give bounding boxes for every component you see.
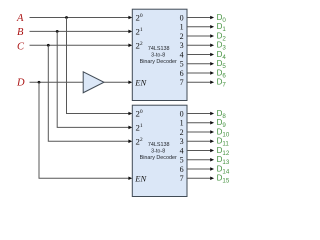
node A junction [65, 16, 68, 19]
U2 output pin numbers 0-7 [180, 109, 184, 183]
node C junction [47, 44, 50, 47]
wire U1 output 5 to D5 [187, 63, 210, 65]
wire A vertical branch [67, 18, 129, 114]
wire B horizontal [30, 30, 129, 32]
arrow D10 [210, 130, 214, 134]
decoder U1 74LS138 body [132, 9, 187, 100]
pin arrow U1 input A [128, 16, 132, 20]
svg-text:7: 7 [180, 78, 184, 87]
arrow D13 [210, 158, 214, 162]
pin arrow U2 input C [128, 140, 132, 144]
svg-text:0: 0 [180, 109, 184, 118]
arrow D5 [210, 62, 214, 66]
wire inverter output to U1 EN [104, 81, 129, 83]
pin arrow U2 EN [128, 176, 132, 180]
svg-text:EN: EN [134, 173, 147, 183]
wire U1 output 3 to D3 [187, 44, 210, 46]
arrow D3 [210, 43, 214, 47]
svg-text:3: 3 [180, 41, 184, 50]
arrow D7 [210, 80, 214, 84]
svg-text:B: B [17, 27, 24, 38]
arrow D11 [210, 139, 214, 143]
wire U1 output 1 to D1 [187, 26, 210, 28]
svg-text:1: 1 [180, 23, 184, 32]
arrow D14 [210, 167, 214, 171]
node D junction [38, 81, 41, 84]
wire U1 output 4 to D4 [187, 54, 210, 56]
svg-text:5: 5 [180, 60, 184, 69]
svg-text:3-to-8: 3-to-8 [151, 148, 165, 154]
wire A horizontal [30, 17, 129, 19]
pin arrow U1 input C [128, 44, 132, 48]
svg-text:D: D [16, 77, 25, 88]
U1 output pin numbers 0-7 [180, 13, 184, 87]
svg-text:0: 0 [180, 13, 184, 22]
arrow D9 [210, 121, 214, 125]
svg-text:3-to-8: 3-to-8 [151, 52, 165, 58]
wire U1 output 2 to D2 [187, 35, 210, 37]
wire C vertical branch [48, 45, 129, 141]
arrow D1 [210, 25, 214, 29]
arrow D4 [210, 53, 214, 57]
wire U2 output 3 to D11 [187, 140, 210, 142]
wire U2 output 1 to D9 [187, 122, 210, 124]
svg-text:74LS138: 74LS138 [148, 142, 170, 148]
wire U1 output 7 to D7 [187, 81, 210, 83]
svg-text:EN: EN [134, 77, 147, 87]
wire U2 output 7 to D15 [187, 177, 210, 179]
svg-text:6: 6 [180, 165, 184, 174]
node B junction [56, 30, 59, 33]
wire U2 output 4 to D12 [187, 150, 210, 152]
svg-text:2: 2 [180, 128, 184, 137]
svg-text:4: 4 [180, 50, 184, 59]
svg-text:3: 3 [180, 137, 184, 146]
decoder U2 74LS138 body [132, 105, 187, 196]
wire D horizontal to inverter [30, 81, 84, 83]
arrow D12 [210, 149, 214, 153]
svg-text:Binary Decoder: Binary Decoder [140, 59, 177, 65]
arrow D8 [210, 112, 214, 116]
svg-text:Binary Decoder: Binary Decoder [140, 155, 177, 161]
wire U2 output 5 to D13 [187, 159, 210, 161]
arrow D2 [210, 34, 214, 38]
wire U2 output 2 to D10 [187, 131, 210, 133]
svg-text:C: C [17, 41, 25, 52]
arrow D15 [210, 176, 214, 180]
wire C horizontal [30, 44, 129, 46]
svg-text:1: 1 [180, 119, 184, 128]
inverter buffer triangle [83, 72, 104, 93]
svg-text:74LS138: 74LS138 [148, 46, 170, 52]
wire B vertical branch [57, 31, 129, 127]
wire U2 output 0 to D8 [187, 113, 210, 115]
pin arrow U2 input A [128, 112, 132, 116]
wire U1 output 6 to D6 [187, 72, 210, 74]
svg-text:5: 5 [180, 156, 184, 165]
svg-text:4: 4 [180, 146, 184, 155]
pin arrow U2 input B [128, 126, 132, 130]
wire D vertical branch to U2 EN [39, 82, 129, 178]
svg-text:6: 6 [180, 69, 184, 78]
pin arrow U1 EN [128, 80, 132, 84]
arrow D6 [210, 71, 214, 75]
svg-text:2: 2 [180, 32, 184, 41]
wire U1 output 0 to D0 [187, 17, 210, 19]
svg-text:A: A [16, 13, 24, 24]
pin arrow U1 input B [128, 30, 132, 34]
arrow D0 [210, 16, 214, 20]
wire U2 output 6 to D14 [187, 168, 210, 170]
svg-text:7: 7 [180, 174, 184, 183]
